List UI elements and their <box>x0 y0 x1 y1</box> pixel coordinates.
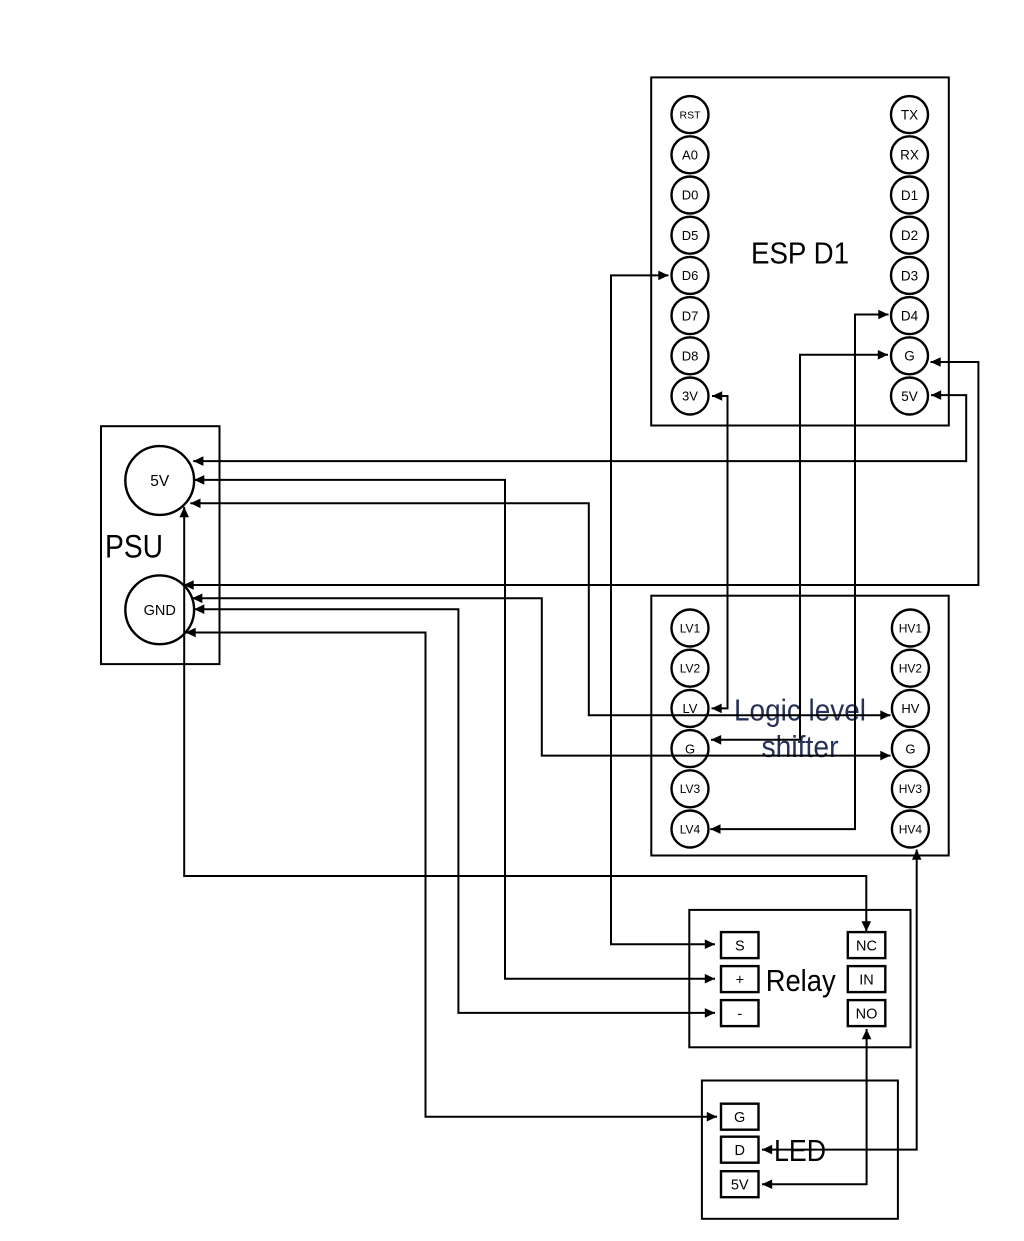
wire PSU GND to shifter right G <box>192 594 890 761</box>
svg-text:HV2: HV2 <box>899 662 923 676</box>
Relay box <box>689 910 910 1047</box>
svg-text:HV3: HV3 <box>899 782 923 796</box>
wire PSU 5V to relay NC <box>179 507 871 932</box>
pin shifter left LV1 <box>672 610 709 647</box>
wire PSU 5V to relay + <box>194 475 715 983</box>
wire PSU 5V to shifter HV <box>190 499 890 721</box>
svg-text:ESP D1: ESP D1 <box>751 236 849 271</box>
svg-text:D0: D0 <box>682 188 699 203</box>
svg-text:LV1: LV1 <box>680 621 701 635</box>
pin ESP D7 <box>672 297 709 334</box>
pin shifter left LV <box>672 690 709 727</box>
svg-text:G: G <box>685 741 695 756</box>
svg-text:+: + <box>736 972 744 988</box>
svg-text:Relay: Relay <box>766 963 836 998</box>
Logic level shifter box <box>651 596 948 856</box>
svg-text:D7: D7 <box>682 308 699 323</box>
pin shifter right HV2 <box>892 650 929 687</box>
svg-text:HV1: HV1 <box>899 621 923 635</box>
svg-text:LV: LV <box>683 701 698 716</box>
svg-text:3V: 3V <box>682 389 698 404</box>
pin shifter right HV3 <box>892 770 929 807</box>
pin relay + <box>721 966 759 992</box>
wire shifter HV4 to LED D <box>762 850 922 1155</box>
pin ESP D8 <box>672 337 709 374</box>
pin shifter right HV1 <box>892 610 929 647</box>
pin ESP G <box>891 337 928 374</box>
svg-text:5V: 5V <box>150 473 170 490</box>
svg-text:G: G <box>734 1110 745 1126</box>
svg-text:D5: D5 <box>682 228 699 243</box>
svg-text:LV3: LV3 <box>680 782 701 796</box>
LED box <box>702 1081 898 1219</box>
pin relay NC <box>848 932 886 958</box>
svg-text:RST: RST <box>680 109 702 121</box>
pin LED 5V <box>721 1171 759 1197</box>
svg-text:TX: TX <box>901 108 918 123</box>
wire ESP G to shifter left G <box>711 350 888 745</box>
wire PSU GND to LED G <box>186 628 718 1122</box>
svg-text:HV: HV <box>901 701 919 716</box>
svg-text:5V: 5V <box>731 1177 749 1193</box>
pin ESP RST <box>672 96 709 133</box>
pin shifter right HV4 <box>892 811 929 848</box>
pin ESP D0 <box>672 177 709 214</box>
svg-text:D8: D8 <box>682 349 699 364</box>
wire relay NO to LED 5V <box>762 1029 871 1189</box>
pin ESP D3 <box>891 257 928 294</box>
ESP D1 board <box>651 77 949 425</box>
pin shifter left LV3 <box>672 770 709 807</box>
svg-text:D3: D3 <box>901 268 918 283</box>
pin shifter left G <box>672 730 709 767</box>
pin ESP D1 <box>891 177 928 214</box>
pin ESP 3V <box>672 378 709 415</box>
pin PSU 5V <box>125 446 194 515</box>
pin ESP RX <box>891 136 928 173</box>
pin PSU GND <box>125 575 194 644</box>
pin shifter right G <box>892 730 929 767</box>
svg-text:A0: A0 <box>682 148 698 163</box>
pin ESP TX <box>891 96 928 133</box>
pin relay NO <box>848 1000 886 1026</box>
svg-text:S: S <box>735 938 745 954</box>
svg-text:LV2: LV2 <box>680 662 701 676</box>
svg-text:HV4: HV4 <box>899 822 923 836</box>
pin shifter left LV4 <box>672 811 709 848</box>
svg-text:-: - <box>737 1006 742 1022</box>
pin LED G <box>721 1104 759 1130</box>
wire ESP D6 to relay S <box>611 271 715 949</box>
pin ESP D5 <box>672 217 709 254</box>
pin ESP D2 <box>891 217 928 254</box>
svg-text:D1: D1 <box>901 188 918 203</box>
wire ESP D4 to shifter LV4 <box>710 310 888 834</box>
pin shifter left LV2 <box>672 650 709 687</box>
pin ESP A0 <box>672 136 709 173</box>
svg-text:GND: GND <box>144 603 176 619</box>
svg-text:NO: NO <box>856 1006 878 1022</box>
pin LED D <box>721 1137 759 1163</box>
svg-text:D4: D4 <box>901 309 919 324</box>
svg-text:NC: NC <box>856 938 877 954</box>
svg-text:LV4: LV4 <box>680 822 701 836</box>
svg-text:5V: 5V <box>901 389 918 404</box>
svg-text:D6: D6 <box>682 268 699 283</box>
pin relay S <box>721 932 759 958</box>
svg-text:D: D <box>734 1143 744 1159</box>
PSU box <box>101 426 220 664</box>
pin ESP D6 <box>672 257 709 294</box>
wire PSU GND to relay - <box>194 604 715 1017</box>
pin relay IN <box>848 966 886 992</box>
svg-text:D2: D2 <box>901 228 918 243</box>
pin ESP 5V <box>891 378 928 415</box>
wire PSU GND to ESP G <box>184 357 979 590</box>
svg-text:RX: RX <box>900 148 919 163</box>
pin relay - <box>721 1000 759 1026</box>
svg-text:G: G <box>904 349 915 364</box>
wire ESP 3V to shifter LV <box>712 391 728 713</box>
pin shifter right HV <box>892 690 929 727</box>
pin ESP D4 <box>891 297 928 334</box>
svg-text:PSU: PSU <box>105 529 163 565</box>
wire PSU 5V to ESP 5V <box>193 390 966 466</box>
svg-text:G: G <box>905 741 915 756</box>
svg-text:IN: IN <box>859 972 874 988</box>
